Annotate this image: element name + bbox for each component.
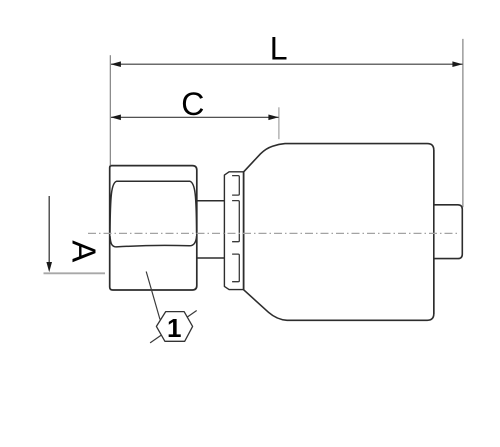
svg-text:1: 1 <box>167 313 181 343</box>
svg-text:C: C <box>181 86 204 122</box>
svg-text:L: L <box>270 31 288 67</box>
svg-text:A: A <box>66 240 103 262</box>
